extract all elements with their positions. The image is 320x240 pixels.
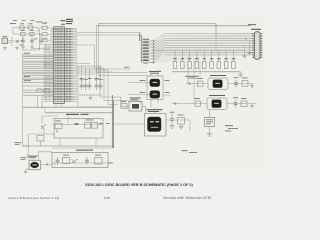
- top bus wire A: [99, 24, 217, 51]
- ground resistor network: [238, 72, 243, 77]
- bus staircase to connector: [155, 34, 254, 41]
- capacitor C-105: [88, 82, 92, 90]
- ground R-130: [178, 124, 183, 129]
- left block pin row group 1: [23, 54, 54, 56]
- opto U-105 label: [210, 74, 226, 77]
- footer page number: [104, 196, 110, 200]
- thermistor RT-100 body: [30, 162, 38, 168]
- IC U-100 left pin stubs: [50, 28, 53, 103]
- net label cluster right: [225, 124, 233, 127]
- wire input row: [8, 34, 41, 46]
- bus wire pair to riser: [77, 33, 141, 36]
- bus lower staircase wires: [77, 66, 140, 105]
- row B wire right: [227, 103, 256, 105]
- resistor RN-17 drop: [225, 50, 227, 61]
- capacitor C-111: [234, 80, 238, 88]
- ground mid connector: [242, 53, 247, 58]
- resistor RN-13: [195, 62, 199, 69]
- bus band extra lines: [165, 53, 254, 55]
- resistor RN-18 drop: [232, 50, 234, 61]
- opto U-102b body: [150, 91, 160, 99]
- IC U-104 box: [205, 118, 215, 127]
- left label RT: [20, 156, 26, 159]
- resistor RN-14 drop: [203, 50, 205, 61]
- diode D-100: [16, 40, 19, 43]
- capacitor bank bottom rail: [79, 94, 102, 96]
- resistor RN-13 drop: [196, 50, 198, 61]
- resistor R-150: [55, 123, 62, 129]
- connector J-1500 pins: [252, 33, 254, 34]
- resistor RN-10: [173, 62, 177, 69]
- bus verticals left bundle: [77, 24, 99, 76]
- wire feed to resistors: [23, 28, 43, 50]
- thermistor wires: [28, 152, 52, 170]
- opto pair U-102 label: [149, 70, 161, 73]
- resistor R-142: [195, 101, 201, 106]
- lower rail wire upper: [23, 106, 114, 108]
- capacitor C-131: [85, 157, 89, 165]
- signal fan-out lines: [141, 40, 150, 42]
- crystal Y-100 outline: [129, 102, 142, 112]
- opto U-106 outline: [207, 98, 227, 109]
- net label far bottom: [182, 149, 188, 152]
- IC U-100 right pin stubs: [73, 28, 78, 103]
- crystal Y-100 label: [130, 97, 141, 100]
- thermistor RT-100 label: [28, 155, 38, 158]
- left block pin row group 6: [23, 89, 54, 91]
- bus band wash: [154, 33, 253, 63]
- resistor RN-15: [210, 62, 214, 69]
- resistor RN-16: [217, 62, 221, 69]
- IC U-100 interior pin names: [54, 28, 63, 103]
- thermistor RT-100 outline: [29, 160, 41, 170]
- input network wires top-left: [13, 28, 50, 49]
- junction node A: [39, 33, 40, 34]
- ground C-110: [169, 124, 174, 129]
- wire R-153 down: [40, 141, 42, 146]
- IC U-100 left pin labels: [43, 44, 50, 103]
- resistor R-122: [21, 32, 26, 35]
- bus stub extras: [77, 64, 97, 75]
- resistor R-124: [43, 26, 48, 29]
- capacitor C-101: [30, 37, 34, 45]
- footer left: [8, 196, 59, 200]
- resistor RN-17: [224, 62, 228, 69]
- capacitor bank top ties: [82, 66, 101, 82]
- IC U-104 wires: [209, 110, 211, 132]
- net dashes logic block: [99, 122, 103, 125]
- row B input arrow: [172, 102, 177, 105]
- resistor RN-11: [181, 62, 185, 69]
- lower rail wire: [45, 112, 113, 114]
- resistor RN-16 drop: [218, 50, 220, 61]
- left block pin row group 2: [23, 60, 54, 62]
- title text: [4, 182, 274, 187]
- capacitor bank box: [78, 66, 114, 107]
- ground near connector: [247, 50, 252, 55]
- resistor R-125: [43, 33, 48, 36]
- footer right: [163, 196, 211, 200]
- row A input arrow: [186, 82, 191, 85]
- signal fan-out arrows: [150, 40, 155, 43]
- resistor RN-18: [232, 62, 236, 69]
- bottom rail wire: [23, 145, 114, 147]
- net label marks: [13, 19, 17, 22]
- opto U-106 body: [212, 100, 222, 108]
- left block wash: [23, 54, 54, 59]
- ground RT-100: [24, 170, 28, 174]
- opto U-105 outline: [208, 78, 228, 89]
- resistor RN-14: [202, 62, 206, 69]
- capacitor C-106: [95, 82, 99, 90]
- left block pin single nets: [23, 81, 54, 83]
- left block pin bottom net: [23, 94, 54, 96]
- IC U-100 label: [61, 19, 66, 22]
- wire Q-100 down: [28, 130, 55, 146]
- left block border wire: [23, 53, 29, 156]
- row A wire right: [228, 83, 254, 85]
- ground row A: [250, 84, 254, 88]
- capacitor C-112: [234, 100, 238, 108]
- connector J-1500 label: [251, 28, 261, 31]
- resistor R-123: [30, 32, 35, 35]
- wire drop to lower block x38: [37, 95, 39, 107]
- row B wire left: [177, 103, 208, 105]
- bus mid horizontals: [95, 69, 148, 76]
- capacitor C-100: [21, 37, 25, 45]
- bus riser bundle: [140, 33, 142, 63]
- resistor R-153: [37, 136, 44, 142]
- IC U-103 body: [148, 117, 162, 132]
- resistor RN-11 drop: [181, 50, 183, 61]
- logic block box: [54, 119, 103, 139]
- IC U-103 label: [147, 108, 163, 111]
- row A wire left: [191, 83, 209, 85]
- capacitor C-130: [56, 157, 60, 165]
- resistor RN-10 drop: [174, 50, 176, 61]
- capacitor C-110: [170, 116, 174, 124]
- IC U-103 wires: [113, 107, 190, 131]
- crystal Y-100 bar: [132, 104, 139, 109]
- resistor network feed rail: [153, 49, 245, 51]
- diode D-102: [75, 123, 79, 125]
- diode D-101: [72, 159, 78, 164]
- resistor RN-15 drop: [211, 50, 213, 61]
- resistor R-126: [43, 39, 48, 42]
- opto U-102a body: [150, 79, 160, 87]
- ground capacitor bank: [89, 96, 93, 100]
- resistor R-128 inline: [44, 89, 49, 92]
- capacitor C-102: [39, 37, 43, 45]
- resistor RN-12: [188, 62, 192, 69]
- crystal wires: [121, 97, 146, 114]
- top bus wire B: [97, 25, 252, 27]
- resistor R-160: [63, 158, 70, 164]
- resistor R-130: [178, 118, 185, 125]
- IC U-100 right pin labels: [65, 28, 73, 103]
- IC U-107: [85, 122, 91, 128]
- capacitor C-104: [84, 82, 88, 90]
- left block pin row group 4: [23, 70, 54, 72]
- net label lower-left: [15, 141, 22, 144]
- power block label: [76, 149, 93, 152]
- IC U-103 outline: [145, 114, 167, 137]
- connector J-1500 body: [255, 32, 261, 59]
- opto pair U-102 box: [147, 76, 163, 100]
- resistor R-127 inline: [37, 89, 42, 92]
- transistor Q-100: [41, 124, 46, 130]
- resistor R-141: [242, 81, 248, 87]
- ground below C-100: [21, 45, 25, 49]
- resistor network label: [185, 75, 199, 78]
- row vertical feeds: [188, 57, 200, 100]
- power block box: [52, 153, 108, 168]
- IC U-100 body: [54, 27, 65, 104]
- resistor R-121: [28, 26, 33, 29]
- wire drop to lower block x45: [41, 95, 43, 107]
- ground below C-101: [30, 45, 34, 49]
- resistor R-120: [20, 26, 25, 29]
- left block pin row group 3: [23, 66, 54, 68]
- net label VCC: [10, 22, 16, 25]
- logic block bottom stub: [60, 138, 96, 146]
- resistor R-161: [95, 158, 103, 165]
- opto U-106 label: [209, 94, 225, 97]
- ground row B: [250, 104, 254, 108]
- resistor R-143: [241, 101, 247, 107]
- bus drop right of power block: [108, 95, 114, 163]
- capacitor C-121 box: [121, 104, 127, 109]
- capacitor C-107: [99, 82, 103, 90]
- logic block internal rail: [54, 124, 103, 126]
- opto pair wires: [128, 69, 171, 107]
- power block internal rail: [52, 162, 108, 164]
- junction ticks: [47, 163, 55, 167]
- drawing area wash: [22, 14, 265, 169]
- opto U-105 body: [213, 80, 223, 88]
- opto pair side labels: [140, 79, 146, 82]
- ground below P-100: [3, 46, 7, 50]
- logic block label: [66, 113, 79, 116]
- capacitor C-103: [80, 82, 84, 90]
- left block pin row group 5: [23, 77, 54, 79]
- ground below D-100: [15, 46, 19, 50]
- IC U-100 bottom stubs: [56, 104, 61, 108]
- resistor RN-12 drop: [189, 50, 191, 61]
- ground U-104: [207, 132, 212, 137]
- resistor network bottom rail: [172, 71, 241, 73]
- junction connector net: [245, 25, 246, 26]
- resistor R-140: [198, 81, 204, 86]
- connector P-100: [2, 38, 8, 43]
- page background: [0, 0, 270, 209]
- wire mid-left net: [42, 116, 58, 124]
- diode marks D-103: [56, 130, 59, 133]
- logic block feed: [45, 107, 68, 124]
